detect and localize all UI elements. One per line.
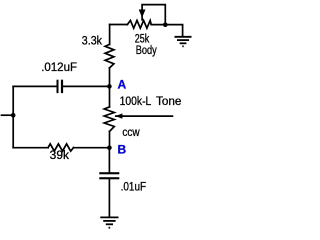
wiper arrow of 25k pot <box>139 10 146 18</box>
wire capacitor .01uF to ground <box>108 179 110 216</box>
wiper arrow of 100k pot <box>115 113 122 118</box>
junction dot at 25k right terminal <box>163 22 168 27</box>
wire from top corner down to 3.3k resistor <box>109 25 111 45</box>
svg-text:A: A <box>118 78 127 92</box>
ground bottom <box>100 217 118 227</box>
wire 39k to node B <box>74 147 110 149</box>
left rail junction dot <box>11 113 16 118</box>
wire 100k pot to node B <box>109 131 111 147</box>
wire left rail vertical <box>12 86 14 147</box>
resistor 39k <box>48 144 73 151</box>
wire 25k right terminal to ground corner <box>151 25 182 36</box>
potentiometer 25k Body <box>127 20 151 28</box>
node B junction dot <box>107 145 112 150</box>
svg-text:Body: Body <box>136 45 157 57</box>
wire top from corner to 25k pot left terminal <box>110 24 128 26</box>
svg-text:25k: 25k <box>135 33 150 45</box>
wiper wire of 100k pot <box>116 115 173 117</box>
wire bottom left to 39k resistor <box>13 147 48 149</box>
svg-text:.012uF: .012uF <box>41 60 77 74</box>
svg-text:.01uF: .01uF <box>121 181 147 193</box>
svg-text:Tone: Tone <box>156 96 181 108</box>
svg-text:3.3k: 3.3k <box>82 35 102 47</box>
ground top right <box>175 37 192 47</box>
capacitor .01uF <box>99 172 119 179</box>
resistor 3.3k <box>105 44 114 68</box>
wire left rail top to capacitor .012uF <box>13 85 56 87</box>
svg-text:B: B <box>118 143 127 157</box>
wire node B down to capacitor .01uF <box>108 148 110 173</box>
node A junction dot <box>107 84 112 89</box>
svg-text:ccw: ccw <box>122 125 140 139</box>
wire node A to 100k pot <box>109 86 111 107</box>
wiper loop wire of 25k pot <box>142 5 165 23</box>
wire capacitor .012uF to node A <box>63 85 109 87</box>
capacitor .012uF <box>57 80 64 93</box>
wire input stub at left junction <box>2 114 14 116</box>
wire 3.3k bottom to node A <box>109 68 111 87</box>
svg-text:100k-L: 100k-L <box>120 96 152 108</box>
svg-text:39k: 39k <box>50 150 70 162</box>
potentiometer 100k-L Tone <box>104 107 114 131</box>
